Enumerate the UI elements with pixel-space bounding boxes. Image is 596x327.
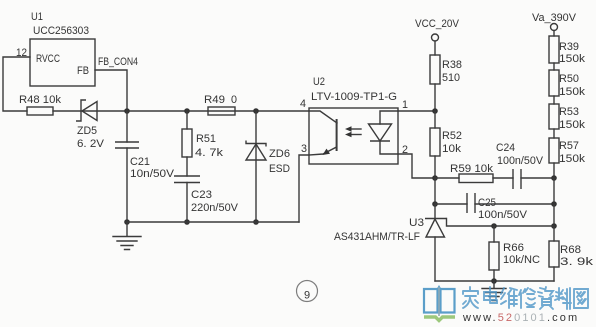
watermark url www.520101.com (462, 312, 579, 324)
svg-text:10k: 10k (442, 143, 462, 155)
svg-text:3. 9k: 3. 9k (560, 256, 594, 268)
wire right column C25 to ref row (553, 204, 555, 226)
resistor R50 (549, 70, 559, 104)
resistor R39 (549, 36, 559, 70)
svg-text:R50: R50 (559, 73, 579, 85)
wire pin1 of U2 to VCC node (398, 110, 435, 112)
phototransistor of U2 (309, 111, 337, 155)
resistor R59 (435, 174, 513, 183)
resistor R57 (549, 138, 559, 178)
svg-text:4. 7k: 4. 7k (195, 147, 224, 159)
修 (519, 288, 535, 308)
svg-text:RVCC: RVCC (36, 53, 60, 65)
wire pin12 of U1 to R48 (3, 57, 30, 111)
svg-text:150k: 150k (559, 86, 586, 98)
svg-text:VCC_20V: VCC_20V (415, 18, 460, 30)
node: junction ZD5/C21/FB (124, 108, 130, 114)
svg-text:12: 12 (16, 47, 27, 59)
node: junction R52/R59/pin2 (432, 175, 438, 181)
node: junction C25 right (551, 201, 557, 207)
svg-text:C21: C21 (130, 156, 150, 168)
svg-text:R52: R52 (442, 130, 462, 142)
wire FB pin to node (95, 70, 127, 111)
ground (right) (482, 281, 506, 301)
node: junction ZD6 top (253, 108, 259, 114)
svg-text:150k: 150k (559, 153, 586, 165)
resistor R66 (489, 226, 499, 281)
power terminal VCC_20V (432, 34, 439, 55)
svg-text:6. 2V: 6. 2V (77, 138, 105, 150)
node: junction pin1/R38/R52 (432, 108, 438, 114)
node: junction ref row right (551, 223, 557, 229)
svg-text:150k: 150k (559, 119, 586, 131)
resistor R53 (549, 104, 559, 138)
zener diode ZD5 (76, 100, 97, 121)
svg-text:R68: R68 (560, 244, 581, 256)
svg-text:www.520101.com: www.520101.com (462, 312, 579, 324)
wire left column to C25 row (434, 178, 436, 204)
svg-text:ESD: ESD (269, 163, 290, 175)
wire bottom-left return (127, 221, 299, 223)
node: junction ZD6 bottom (253, 219, 259, 225)
svg-text:AS431AHM/TR-LF: AS431AHM/TR-LF (334, 231, 420, 243)
IC U2 optocoupler box (309, 108, 398, 164)
LED of U2 (369, 111, 399, 154)
维 (501, 288, 517, 308)
node: junction C25 left (432, 201, 438, 207)
capacitor C23 (174, 176, 200, 222)
svg-text:10k/NC: 10k/NC (503, 254, 540, 266)
wire main row (53, 110, 309, 112)
svg-text:ZD6: ZD6 (269, 148, 290, 160)
wire bottom return right (435, 280, 554, 282)
svg-text:220n/50V: 220n/50V (191, 202, 239, 214)
svg-text:R38: R38 (442, 59, 462, 71)
svg-text:R57: R57 (559, 140, 579, 152)
ground (left) (113, 222, 141, 250)
svg-text:100n/50V: 100n/50V (478, 209, 528, 221)
node: junction C23 bottom (184, 219, 190, 225)
svg-text:R51: R51 (196, 133, 216, 145)
resistor R52 (430, 111, 440, 178)
figure number circled 9 (297, 281, 318, 302)
svg-text:0: 0 (231, 94, 237, 106)
svg-text:R66: R66 (503, 242, 524, 254)
svg-text:R48 10k: R48 10k (19, 94, 61, 106)
svg-text:LTV-1009-TP1-G: LTV-1009-TP1-G (311, 91, 397, 103)
svg-text:150k: 150k (559, 53, 586, 65)
svg-text:R53: R53 (559, 106, 579, 118)
shunt regulator U3 AS431 (425, 204, 554, 281)
node: junction ground right (491, 278, 497, 284)
svg-text:Va_390V: Va_390V (532, 12, 577, 24)
svg-text:R59 10k: R59 10k (450, 163, 494, 175)
svg-text:R39: R39 (559, 41, 579, 53)
resistor R51 (182, 111, 192, 176)
node: junction R66 top (491, 223, 497, 229)
svg-text:1: 1 (402, 99, 408, 111)
node: junction R57/C24 (551, 175, 557, 181)
svg-text:U3: U3 (409, 217, 424, 229)
capacitor C25 (435, 193, 554, 213)
svg-text:U1: U1 (31, 11, 43, 23)
resistor R49 (208, 107, 235, 115)
capacitor C21 (115, 111, 139, 222)
svg-text:UCC256303: UCC256303 (33, 25, 89, 37)
svg-text:3: 3 (301, 143, 307, 155)
resistor R38 (430, 55, 440, 111)
node: junction R51 top (184, 108, 190, 114)
svg-text:4: 4 (300, 98, 306, 110)
网 (574, 289, 588, 308)
resistor R68 (549, 226, 559, 281)
watermark text 家电维修资料网 (463, 287, 588, 309)
svg-text:C25: C25 (478, 197, 496, 209)
svg-text:U2: U2 (313, 76, 325, 88)
wire right column C24 to C25 row (553, 178, 555, 204)
node: junction C21 bottom / ground (124, 219, 130, 225)
svg-text:ZD5: ZD5 (77, 125, 97, 137)
IC U1 UCC256303 (30, 39, 95, 86)
zener diode ZD6 ESD (246, 111, 266, 222)
power terminal Va_390V (551, 24, 558, 37)
watermark logo book icon (424, 287, 455, 321)
svg-text:R49: R49 (204, 94, 225, 106)
svg-text:10n/50V: 10n/50V (130, 168, 175, 180)
svg-text:FB: FB (77, 65, 89, 77)
家 (463, 287, 478, 308)
svg-text:9: 9 (304, 290, 310, 302)
wire pin2 of U2 to R52 bottom node (398, 154, 435, 178)
svg-text:C23: C23 (191, 189, 212, 201)
svg-text:FB_CON4: FB_CON4 (98, 56, 138, 68)
电 (484, 287, 497, 303)
svg-text:100n/50V: 100n/50V (497, 155, 544, 167)
料 (555, 288, 571, 309)
svg-text:510: 510 (442, 72, 460, 84)
resistor R48 (27, 107, 53, 115)
capacitor C24 (513, 169, 554, 189)
wire pin3 of U2 to bottom return (299, 155, 309, 222)
light arrows of U2 (345, 126, 361, 137)
svg-text:C24: C24 (496, 142, 515, 154)
资 (538, 287, 553, 309)
